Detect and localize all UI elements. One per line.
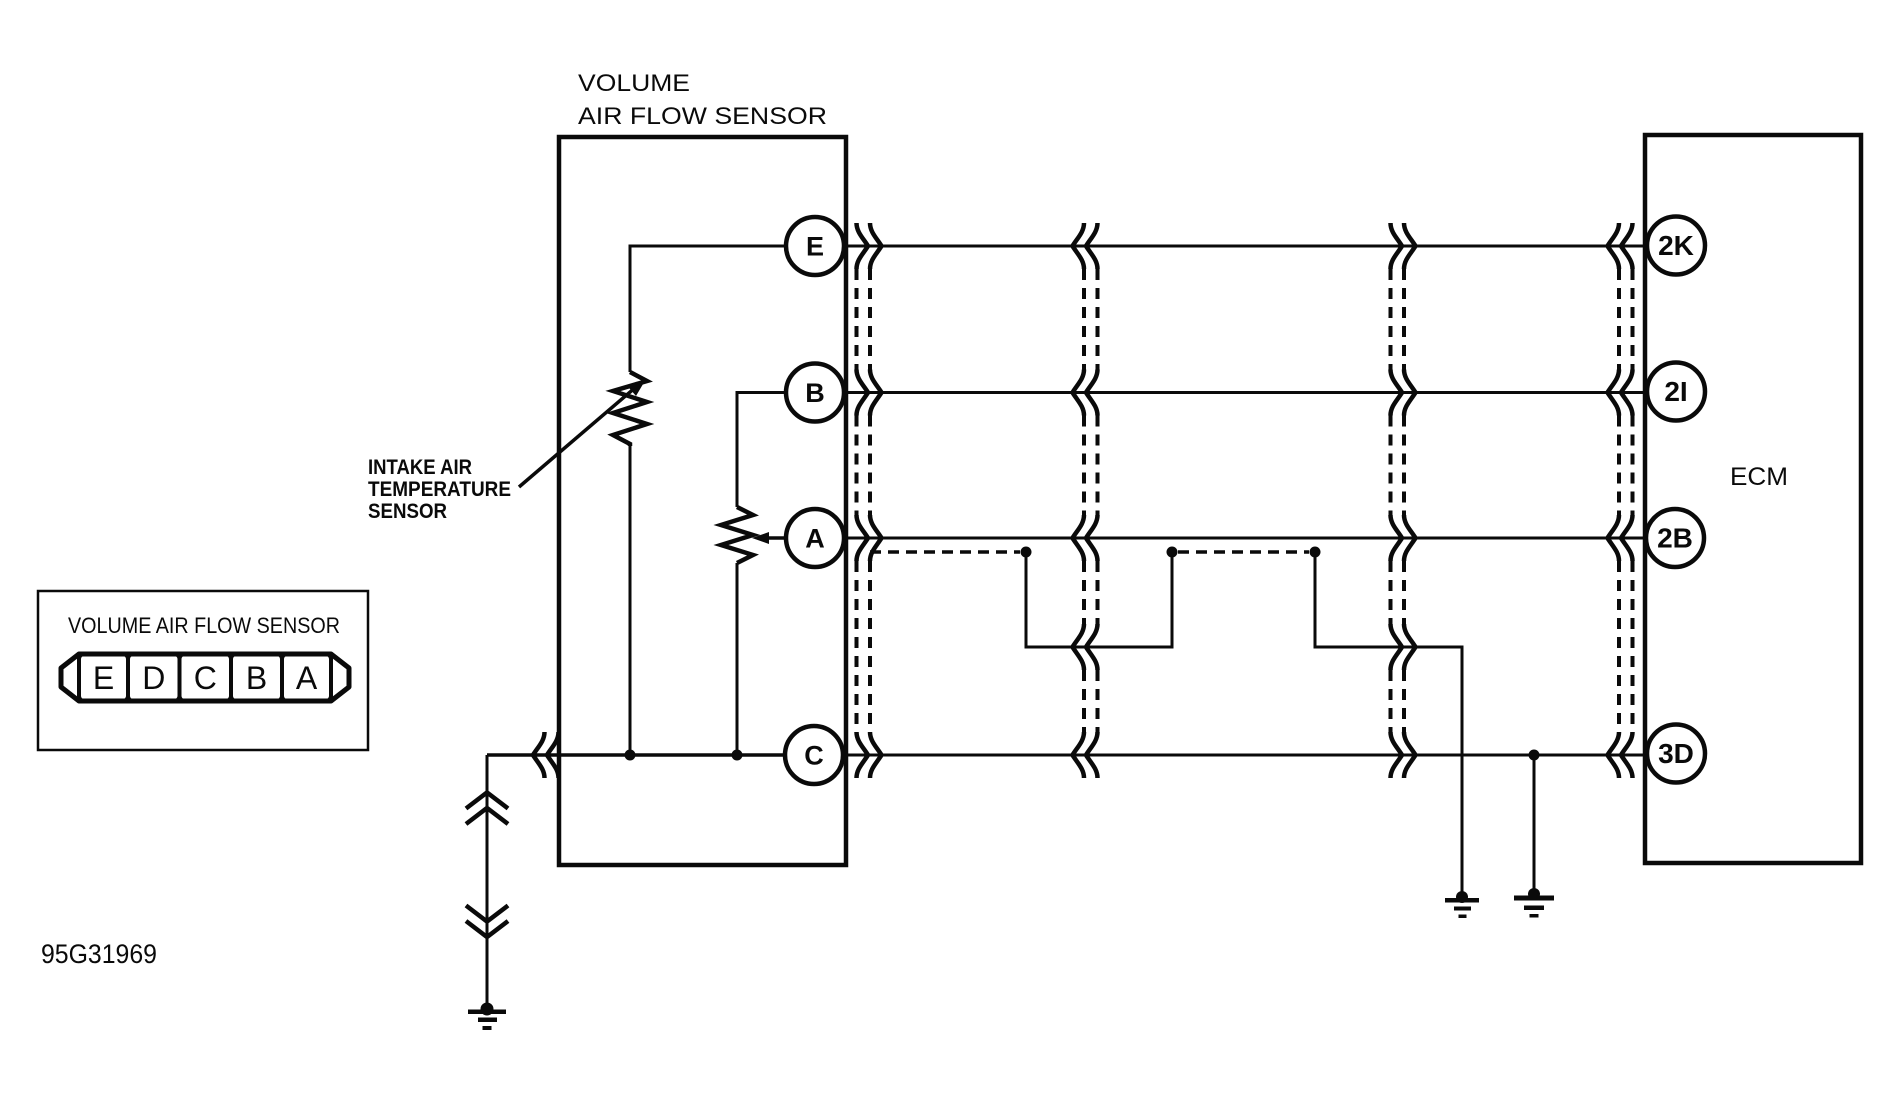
node junction dot (1021, 547, 1032, 558)
ground chassis ground (468, 1003, 506, 1031)
node junction dot at potentiometer/bottom wire (732, 750, 743, 761)
svg-text:2I: 2I (1664, 376, 1687, 407)
legend box outline (38, 591, 368, 750)
harness column 2 dashed shield pair with connector chevrons (1073, 223, 1098, 778)
svg-text:E: E (806, 232, 824, 262)
label VOLUME AIR FLOW SENSOR (top) (578, 70, 827, 130)
wire A to 2B (843, 537, 1647, 540)
svg-text:VOLUME AIR FLOW SENSOR: VOLUME AIR FLOW SENSOR (68, 613, 340, 638)
svg-text:2B: 2B (1657, 523, 1693, 554)
wire IAT sensor lower lead to bottom wire (629, 446, 632, 755)
svg-text:B: B (246, 660, 267, 696)
harness column 3 dashed shield pair with connector chevrons (1391, 223, 1416, 778)
wire C to 3D (786, 754, 1648, 757)
svg-text:95G31969: 95G31969 (41, 939, 157, 969)
terminal C of air flow sensor (785, 726, 843, 784)
terminal A of air flow sensor (786, 509, 844, 567)
harness column 4 (at ECM connector) dashed shield pair with connector chevrons (1608, 223, 1633, 778)
connector chevrons on ground riser (lower pair) (466, 906, 508, 938)
svg-text:A: A (296, 660, 318, 696)
wiper arrow from pin A to potentiometer (752, 532, 787, 544)
svg-text:3D: 3D (1658, 738, 1694, 769)
svg-text:SENSOR: SENSOR (368, 500, 447, 523)
node junction dot (1167, 547, 1178, 558)
wire B internal (B pin left and down to potentiometer) (737, 393, 787, 508)
harness column 1 (at sensor connector) dashed shield pair with connector chevrons (857, 223, 882, 778)
svg-text:AIR FLOW SENSOR: AIR FLOW SENSOR (578, 103, 827, 130)
dashed shield drain wire (middle span) (1178, 550, 1309, 554)
wire bottom-left from ground riser to pin C (487, 753, 786, 757)
wire E to 2K (843, 245, 1648, 248)
svg-text:C: C (194, 660, 217, 696)
label figure number 95G31969 (41, 939, 157, 969)
legend label VOLUME AIR FLOW SENSOR (68, 613, 340, 638)
svg-text:B: B (805, 378, 825, 408)
label INTAKE AIR TEMPERATURE SENSOR (368, 456, 511, 523)
connector chevrons on bottom wire outside sensor box (533, 732, 559, 778)
node junction dot on C-3D wire (1529, 750, 1540, 761)
pin 2I of ECM (1647, 363, 1705, 421)
svg-text:ECM: ECM (1730, 463, 1788, 491)
resistor intake air temperature sensor (zigzag) (613, 372, 647, 446)
resistor potentiometer (zigzag) (721, 507, 753, 563)
wire from C-3D wire down to ground (1533, 755, 1536, 894)
arrow leader to IAT sensor (519, 379, 646, 487)
connector cavities E D C B A (79, 654, 331, 701)
svg-text:E: E (93, 660, 114, 696)
wire shield drain to ground (1315, 552, 1462, 897)
ground shield drain (1445, 891, 1479, 918)
label ECM (1730, 463, 1788, 491)
wire B to 2I (843, 391, 1648, 394)
node junction dot at IAT/bottom wire (625, 750, 636, 761)
wire E internal (E pin left and down to IAT sensor) (630, 246, 787, 372)
volume air flow sensor box outline (559, 137, 846, 865)
pin 2B of ECM (1646, 509, 1704, 567)
wire shield drain step down/right/up (1026, 552, 1172, 647)
wire potentiometer lower lead to bottom wire (736, 563, 739, 755)
svg-text:C: C (804, 741, 824, 771)
svg-text:A: A (805, 524, 825, 554)
connector chevrons on ground riser (upper pair) (466, 793, 508, 825)
pin 2K of ECM (1647, 217, 1705, 275)
connector shell outline (61, 654, 349, 701)
terminal B of air flow sensor (786, 364, 844, 422)
node junction dot (1310, 547, 1321, 558)
ground ECM signal ground (1514, 888, 1554, 918)
wire ground riser from bottom wire corner (486, 755, 489, 1008)
svg-text:VOLUME: VOLUME (578, 70, 690, 97)
svg-text:D: D (142, 660, 165, 696)
pin 3D of ECM (1647, 725, 1705, 783)
dashed shield drain wire from A (left span) (870, 550, 1020, 554)
ECM box outline (1645, 135, 1861, 863)
svg-text:INTAKE AIR: INTAKE AIR (368, 456, 472, 479)
terminal E of air flow sensor (786, 217, 844, 275)
svg-text:TEMPERATURE: TEMPERATURE (368, 478, 511, 501)
svg-text:2K: 2K (1658, 230, 1694, 261)
